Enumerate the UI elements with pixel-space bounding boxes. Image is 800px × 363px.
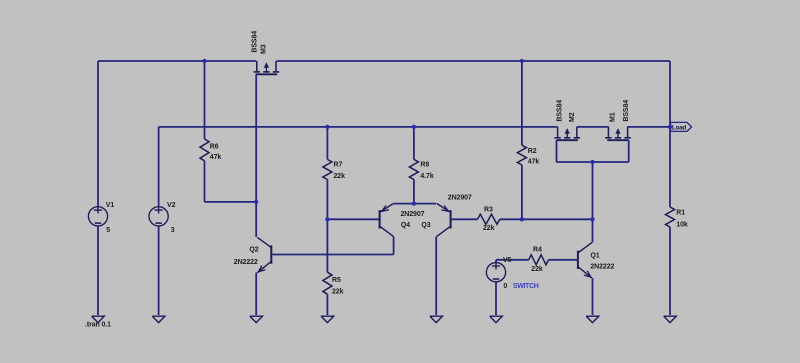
svg-text:BSS84: BSS84 <box>557 100 564 122</box>
svg-text:2N2222: 2N2222 <box>234 259 258 266</box>
svg-text:22k: 22k <box>334 173 346 180</box>
svg-text:22k: 22k <box>483 225 495 232</box>
svg-text:Q4: Q4 <box>401 222 410 229</box>
svg-text:V5: V5 <box>503 257 512 264</box>
svg-text:R1: R1 <box>676 210 685 217</box>
svg-text:R2: R2 <box>528 148 537 155</box>
svg-text:5: 5 <box>106 227 110 234</box>
svg-text:Q3: Q3 <box>421 222 430 229</box>
svg-text:47k: 47k <box>210 154 222 161</box>
svg-text:R5: R5 <box>332 277 341 284</box>
svg-text:Load: Load <box>672 124 686 131</box>
svg-text:2N2907: 2N2907 <box>401 211 425 218</box>
svg-text:SWITCH: SWITCH <box>513 283 539 290</box>
svg-text:22k: 22k <box>332 289 344 296</box>
svg-text:Q1: Q1 <box>590 252 599 259</box>
svg-text:Q2: Q2 <box>249 246 258 253</box>
svg-text:3: 3 <box>171 227 175 234</box>
svg-text:R4: R4 <box>533 246 542 253</box>
svg-text:R8: R8 <box>420 162 429 169</box>
svg-text:M1: M1 <box>609 112 616 122</box>
svg-text:10k: 10k <box>676 222 688 229</box>
svg-text:BSS84: BSS84 <box>252 31 259 53</box>
svg-text:0: 0 <box>503 283 507 290</box>
svg-text:R3: R3 <box>484 206 493 213</box>
svg-text:M2: M2 <box>569 112 576 122</box>
svg-text:BSS84: BSS84 <box>623 100 630 122</box>
svg-text:47k: 47k <box>528 158 540 165</box>
svg-text:.tran 0.1: .tran 0.1 <box>85 322 111 329</box>
svg-text:2N2222: 2N2222 <box>590 263 614 270</box>
svg-text:V2: V2 <box>167 202 176 209</box>
svg-text:R6: R6 <box>210 144 219 151</box>
svg-text:2N2907: 2N2907 <box>448 194 472 201</box>
svg-text:R7: R7 <box>334 162 343 169</box>
svg-text:V1: V1 <box>106 202 115 209</box>
svg-text:22k: 22k <box>531 266 543 273</box>
svg-text:4.7k: 4.7k <box>420 173 433 180</box>
svg-text:M3: M3 <box>261 44 268 54</box>
